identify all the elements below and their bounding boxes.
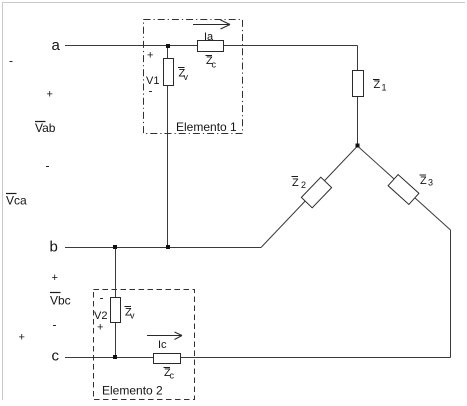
svg-text:Z: Z: [374, 79, 381, 91]
wire: phase b horizontal: [65, 247, 261, 249]
wire: right vertical leg: [450, 230, 452, 358]
resistor Z2: [301, 177, 331, 208]
svg-text:Vca: Vca: [6, 194, 27, 208]
wire: element 2 voltmeter branch (b to c): [115, 248, 117, 358]
svg-text:2: 2: [301, 180, 306, 190]
label Zv element 1: [178, 68, 189, 83]
svg-text:-: -: [46, 159, 50, 173]
svg-text:+: +: [47, 89, 53, 101]
element 2 dashed box: [94, 290, 195, 400]
svg-text:-: -: [9, 54, 13, 68]
svg-text:1: 1: [382, 83, 387, 93]
resistor Zc element 2 (current coil): [154, 354, 181, 364]
label Vab: [35, 121, 56, 135]
svg-text:-: -: [149, 84, 153, 98]
label Z3: [420, 175, 434, 188]
junction on wire a at element 1 tap: [166, 44, 170, 48]
wire: element 1 voltmeter branch (a to b): [167, 46, 169, 248]
svg-text:c: c: [170, 371, 175, 381]
element 1 dashed box: [144, 20, 243, 134]
svg-text:Z: Z: [420, 175, 427, 187]
svg-text:+: +: [147, 50, 153, 62]
junction on wire b at element 1 branch: [166, 245, 170, 249]
svg-text:Ia: Ia: [204, 31, 214, 43]
junction on wire b at element 2 tap: [113, 245, 117, 249]
label Z1: [373, 79, 387, 93]
svg-text:-: -: [100, 291, 104, 305]
label Zc element 2: [164, 367, 175, 381]
wire: diagonal b to neutral node: [261, 146, 358, 248]
svg-text:b: b: [50, 239, 58, 256]
svg-text:V2: V2: [94, 310, 107, 322]
svg-text:Vbc: Vbc: [50, 294, 71, 308]
svg-text:c: c: [212, 60, 217, 70]
label Zv element 2: [125, 307, 136, 321]
resistor Zc element 1 (current coil): [198, 41, 224, 52]
svg-text:Ic: Ic: [158, 339, 167, 351]
resistor Zv element 1 (voltage coil): [164, 59, 174, 86]
svg-text:+: +: [97, 322, 103, 334]
junction on wire c at element 2 branch: [113, 355, 117, 359]
label Vca: [6, 194, 27, 208]
svg-text:Vab: Vab: [35, 121, 56, 135]
svg-text:a: a: [52, 37, 61, 54]
wire: drop from phase a to node: [357, 46, 359, 147]
svg-text:-: -: [53, 318, 57, 332]
label Z2: [292, 177, 307, 191]
svg-text:Z: Z: [292, 177, 299, 189]
svg-text:Elemento 2: Elemento 2: [102, 384, 163, 398]
junction neutral node: [356, 144, 360, 148]
svg-text:v: v: [130, 311, 135, 321]
wire: phase c horizontal: [65, 357, 451, 359]
svg-text:+: +: [52, 272, 58, 284]
label Zc element 1: [206, 55, 217, 70]
wire: diagonal neutral node to right leg: [358, 146, 451, 230]
resistor Z1: [353, 71, 364, 97]
wire: phase a horizontal: [65, 45, 358, 47]
label Vbc: [50, 293, 71, 308]
resistor Z3: [388, 175, 419, 205]
svg-text:Elemento 1: Elemento 1: [176, 120, 237, 134]
arrow Ic current direction: [147, 332, 182, 340]
svg-text:3: 3: [428, 178, 433, 188]
svg-text:+: +: [19, 332, 25, 344]
svg-text:v: v: [184, 72, 189, 82]
svg-text:c: c: [52, 348, 60, 365]
resistor Zv element 2 (voltage coil): [111, 298, 121, 323]
arrow Ia current direction: [193, 20, 230, 29]
